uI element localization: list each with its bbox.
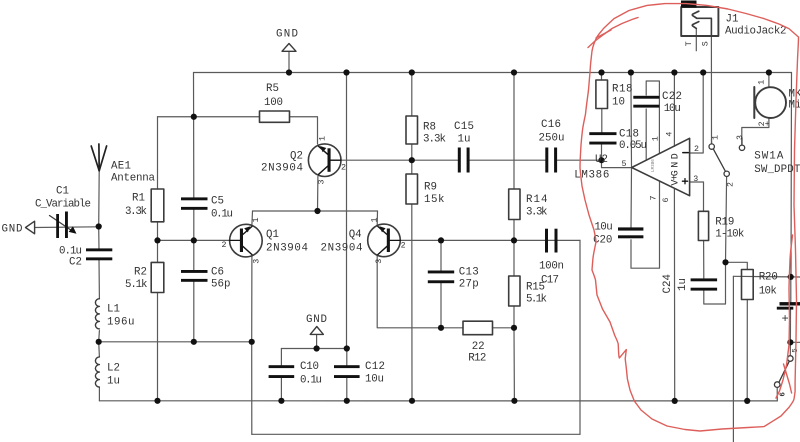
wire C22 bottom to pin8 edge xyxy=(645,109,647,160)
svg-text:C6: C6 xyxy=(211,267,224,279)
wire switch common down to junction xyxy=(726,177,727,263)
svg-text:2N3904: 2N3904 xyxy=(266,243,308,255)
node bottom bus at R20 xyxy=(744,398,750,404)
svg-text:LM386: LM386 xyxy=(574,169,609,181)
red hook stroke xyxy=(588,18,638,48)
svg-text:+: + xyxy=(765,120,770,129)
resistor R14 xyxy=(509,189,520,220)
svg-text:L2: L2 xyxy=(107,363,120,375)
battery BT plates xyxy=(780,302,800,305)
capacitor C13 plates xyxy=(428,271,454,274)
svg-text:1u: 1u xyxy=(107,376,120,388)
svg-text:C15: C15 xyxy=(454,121,474,133)
svg-text:R19: R19 xyxy=(715,216,734,228)
capacitor C22 plates xyxy=(633,96,659,99)
wire Q1 collector stub xyxy=(251,211,254,225)
svg-text:1u: 1u xyxy=(677,278,689,291)
wire Q1-Q4 collector row y=211 xyxy=(253,210,378,212)
svg-text:10u: 10u xyxy=(365,374,384,386)
wire R20 bottom to bottom bus xyxy=(746,300,748,401)
wire apex column down to C20 xyxy=(630,168,633,228)
svg-text:10u: 10u xyxy=(594,222,612,234)
op-amp U1 minus sign xyxy=(683,152,689,154)
wire SW1B throw stub xyxy=(789,342,791,355)
svg-text:0.1u: 0.1u xyxy=(211,209,233,221)
svg-text:2: 2 xyxy=(401,241,406,250)
svg-text:3: 3 xyxy=(253,259,262,264)
wire U2 input jog to apex xyxy=(602,160,632,167)
svg-text:10u: 10u xyxy=(664,103,681,115)
svg-text:1: 1 xyxy=(711,135,720,140)
wire battery top stub xyxy=(790,277,792,302)
inductor L2 coil xyxy=(95,357,99,387)
capacitor C15 plates (vertical) xyxy=(458,148,461,173)
wire right edge column mic corner to battery xyxy=(790,73,793,277)
svg-text:7: 7 xyxy=(649,196,658,201)
node L1/L2 junction xyxy=(96,339,102,345)
wire C18 bottom to signal junction xyxy=(601,145,603,161)
svg-text:4: 4 xyxy=(666,132,675,137)
wire C24 bottom jog up to switch junction xyxy=(704,262,726,304)
node bottom bus at C10 xyxy=(278,398,284,404)
svg-text:1u: 1u xyxy=(458,134,471,146)
svg-text:3: 3 xyxy=(318,180,327,185)
svg-text:15k: 15k xyxy=(424,194,445,206)
wire R9 bottom to bottom bus xyxy=(411,204,413,401)
node top bus at pin2 column xyxy=(700,69,706,75)
node Q4 base row at C13 xyxy=(438,237,444,243)
svg-text:5.1k: 5.1k xyxy=(125,279,148,291)
svg-text:R18: R18 xyxy=(612,83,633,95)
svg-text:SW_DPDT: SW_DPDT xyxy=(754,164,800,176)
svg-text:C_Variable: C_Variable xyxy=(35,199,91,211)
node L-row at Q1 emitter xyxy=(249,339,255,345)
power symbol GND left triangle xyxy=(26,221,35,234)
wire signal row y=160.2 Q2 base to C15 xyxy=(330,159,458,161)
wire R15 bottom stub xyxy=(513,306,515,328)
svg-text:6: 6 xyxy=(780,392,788,397)
switch SW1A contact 3 stub xyxy=(741,138,743,145)
svg-text:2N3904: 2N3904 xyxy=(321,243,363,255)
svg-text:C13: C13 xyxy=(459,267,479,279)
capacitor C17 plates (vertical) xyxy=(545,229,548,253)
svg-text:R5: R5 xyxy=(266,83,279,95)
svg-text:1-10k: 1-10k xyxy=(715,228,744,240)
svg-text:5: 5 xyxy=(622,160,627,169)
capacitor C1 arrowhead xyxy=(69,226,77,234)
svg-text:C16: C16 xyxy=(541,119,561,131)
wire C6 down to L-row xyxy=(193,281,195,342)
svg-text:C10: C10 xyxy=(300,361,319,373)
svg-text:L1: L1 xyxy=(107,304,120,316)
wire C10 top corner xyxy=(280,349,282,366)
resistor R1 xyxy=(151,189,164,222)
node bottom bus at C12 xyxy=(344,398,350,404)
svg-text:3.3k: 3.3k xyxy=(125,206,147,218)
svg-text:U2: U2 xyxy=(595,154,608,166)
capacitor C6 plates xyxy=(181,270,208,273)
wire R14 bottom stub xyxy=(513,220,515,241)
op-amp U1 plus sign xyxy=(682,179,687,184)
power symbol GND top triangle xyxy=(282,44,296,52)
transistor Q4 body xyxy=(368,224,401,257)
transistor Q2 bar and legs xyxy=(319,146,341,174)
switch SW1A common contact 2 xyxy=(724,171,729,176)
svg-text:1: 1 xyxy=(651,136,660,141)
wire L1 bottom to junction xyxy=(98,331,101,342)
jack J1 sleeve right-angle to S pin xyxy=(696,18,711,36)
wire SW1A throw1 stub xyxy=(711,139,713,144)
svg-text:V+: V+ xyxy=(671,175,682,186)
svg-text:Q2: Q2 xyxy=(290,151,303,163)
wire C12 top stub xyxy=(346,349,348,366)
wire Q1 base row y=240.4 xyxy=(158,239,230,241)
wire jack sleeve line down to SW1A xyxy=(710,36,712,144)
svg-text:56p: 56p xyxy=(211,279,231,291)
svg-text:R20: R20 xyxy=(759,271,778,283)
wire L1 top from C2 xyxy=(98,260,100,299)
wire R9 stub top xyxy=(411,160,413,174)
wire C13 bottom stub xyxy=(440,283,442,328)
resistor R19 xyxy=(698,211,708,240)
node top bus at mic xyxy=(766,69,772,75)
svg-text:3: 3 xyxy=(693,175,698,184)
wire antenna stem xyxy=(98,171,101,227)
svg-text:2: 2 xyxy=(341,163,346,172)
svg-text:3.3k: 3.3k xyxy=(526,207,548,219)
svg-text:2: 2 xyxy=(694,145,699,154)
node top bus at R8 xyxy=(409,69,415,75)
wire GND left stem and C1 row y=227.5 xyxy=(35,226,99,229)
op-amp U1 LM386 triangle xyxy=(632,138,690,195)
wire R5 row y=116.75 xyxy=(158,116,260,118)
transistor internals xyxy=(230,146,689,255)
switch SW1B common contact xyxy=(774,382,780,388)
svg-text:Q1: Q1 xyxy=(266,229,279,241)
svg-text:5.1k: 5.1k xyxy=(526,294,547,306)
node signal row at U2 input xyxy=(598,157,604,163)
capacitor C18 plates xyxy=(589,132,616,135)
jack J1 shield black square xyxy=(681,1,697,8)
svg-text:1: 1 xyxy=(757,80,766,85)
switch SW1A contact 1 xyxy=(709,144,714,149)
svg-text:C12: C12 xyxy=(365,361,385,373)
svg-text:0.1u: 0.1u xyxy=(300,375,322,387)
node R1/R2 xyxy=(154,237,160,243)
node top bus at x=346 xyxy=(343,69,349,75)
wire mic pin1 stub xyxy=(768,73,770,88)
svg-text:C5: C5 xyxy=(211,196,224,208)
node R12 row right xyxy=(511,325,517,331)
wire Q4 base row y=240.4 xyxy=(400,239,580,241)
wire LM386 pin2 to bus column xyxy=(690,73,704,154)
svg-text:3.3k: 3.3k xyxy=(423,134,446,146)
svg-text:S: S xyxy=(701,41,710,46)
switch SW1B lever xyxy=(779,361,789,382)
wire SW1B stub right to edge xyxy=(790,341,800,343)
svg-text:R15: R15 xyxy=(526,282,545,294)
svg-text:C22: C22 xyxy=(662,91,682,103)
svg-text:Mi: Mi xyxy=(789,99,800,111)
wire LM386 pin4 from bus xyxy=(673,73,675,147)
resistor R9 xyxy=(406,174,418,204)
node battery bottom SW1B xyxy=(787,339,793,345)
wire Q4 collector stub xyxy=(376,211,378,225)
node mid GND row stem xyxy=(314,345,320,351)
wire R1 top to R5 row xyxy=(157,117,159,189)
wire LM386 pin3 to R19 xyxy=(690,182,704,211)
wire R12 row left segment xyxy=(441,327,463,329)
resistor R5 xyxy=(260,111,290,122)
node R20 row right xyxy=(788,274,794,280)
svg-text:Q4: Q4 xyxy=(349,229,362,241)
svg-text:T: T xyxy=(685,41,694,46)
svg-text:C24: C24 xyxy=(662,274,674,294)
node R12 row left xyxy=(438,325,444,331)
svg-text:R9: R9 xyxy=(424,182,437,194)
svg-text:196u: 196u xyxy=(107,317,135,329)
antenna AE1 symbol xyxy=(91,144,106,171)
wire R14 column from bus xyxy=(513,73,515,190)
wire SW1B common stub to bus end xyxy=(776,388,778,401)
node top bus at LM386 pin4 xyxy=(671,69,677,75)
svg-text:Antenna: Antenna xyxy=(111,173,156,185)
red inner branch stroke xyxy=(784,364,792,393)
wire Q1 emitter down to L-row xyxy=(251,256,253,342)
capacitor C16 plates (vertical) xyxy=(545,148,548,173)
wire apex column from bus x=631 xyxy=(630,73,633,168)
svg-text:100n: 100n xyxy=(539,261,564,273)
jack J1 tip contact chevron xyxy=(692,11,699,18)
wire L2 top stub xyxy=(98,342,101,357)
node collector row at Q2 emitter xyxy=(314,208,320,214)
wire LM386 pin6 V+ down to bottom bus xyxy=(673,189,675,401)
wire outer feedback loop left vertical xyxy=(251,342,253,435)
svg-text:R12: R12 xyxy=(468,353,486,365)
svg-text:2N3904: 2N3904 xyxy=(261,163,303,175)
svg-text:AudioJack2: AudioJack2 xyxy=(725,26,787,38)
wire C20 bottom jog to pin7 xyxy=(631,181,660,268)
capacitor C10 plates xyxy=(269,365,295,368)
microphone MK1 diaphragm bar xyxy=(753,87,755,118)
wire R20 left net vertical off bottom edge xyxy=(732,276,734,442)
node R5 row at x=193.8 xyxy=(191,114,197,120)
svg-text:3: 3 xyxy=(736,135,745,140)
node top bus at R18 xyxy=(598,69,604,75)
node bottom bus at R2 xyxy=(154,398,160,404)
wire L2 bottom corner xyxy=(98,387,100,401)
wire Q4 emitter down and right to R12 row xyxy=(377,256,441,328)
resistor R18 xyxy=(596,80,608,109)
svg-text:LM386: LM386 xyxy=(651,159,656,172)
node L-row at x=193.8 xyxy=(191,339,197,345)
resistor R20 xyxy=(742,270,754,300)
wire bottom bus y=400.8 xyxy=(99,400,777,402)
connector J1 audio jack body xyxy=(681,7,718,36)
switch SW1B throw contact xyxy=(788,356,794,362)
node bottom bus at R15 xyxy=(511,398,517,404)
node top bus at R14 column xyxy=(511,69,517,75)
svg-text:100: 100 xyxy=(264,97,283,109)
svg-text:0.05u: 0.05u xyxy=(619,140,647,152)
red hook secondary dash xyxy=(596,30,611,38)
transistor Q1 body xyxy=(230,224,263,257)
wire mid GND stem xyxy=(316,335,318,349)
svg-text:R2: R2 xyxy=(134,267,147,279)
wire junction to R20 top xyxy=(726,262,748,269)
svg-text:AE1: AE1 xyxy=(111,161,131,173)
wire R19 bottom to C24 xyxy=(703,241,705,279)
capacitor C5 plates xyxy=(181,197,208,200)
wire top GND bus y=72.5 xyxy=(194,72,792,74)
capacitor C1 plates (vertical) xyxy=(56,214,59,238)
wire signal row C16 to U2 junction xyxy=(558,159,602,161)
svg-text:SW1A: SW1A xyxy=(754,150,784,162)
svg-text:27p: 27p xyxy=(459,278,479,290)
wire R5 to Q2 collector corner xyxy=(290,117,318,144)
capacitor C1 variable arrow line xyxy=(50,216,75,233)
wire mic pin2 to SW1A throw2 xyxy=(742,118,769,145)
red main loop xyxy=(580,4,799,431)
node mid GND row right xyxy=(344,345,350,351)
svg-text:C18: C18 xyxy=(619,129,639,141)
node switch junction xyxy=(722,259,728,265)
svg-text:6: 6 xyxy=(662,198,671,203)
svg-text:2: 2 xyxy=(222,241,227,250)
wire R1 top corner xyxy=(157,222,159,241)
wire Q2 emitter down to collector row xyxy=(317,177,319,212)
wire C22 top hook to pin1 xyxy=(646,81,659,153)
svg-text:22: 22 xyxy=(472,341,485,353)
wire R15 top stub xyxy=(513,240,515,276)
resistor R2 xyxy=(151,262,164,292)
inductor L1 coil xyxy=(95,299,99,329)
transistor Q2 body xyxy=(308,144,341,177)
wire L-row y=341.8 xyxy=(99,341,252,343)
svg-text:GND: GND xyxy=(2,224,23,236)
svg-text:C2: C2 xyxy=(69,257,82,269)
svg-text:GND: GND xyxy=(671,153,682,176)
microphone MK1 body xyxy=(755,87,786,118)
wire R8 bottom stub xyxy=(411,144,413,160)
wire gnd column x=346.5 from bus to mid gnd wire xyxy=(346,73,348,349)
wire C5 to C6 segment xyxy=(193,209,195,271)
svg-text:R1: R1 xyxy=(132,193,145,205)
svg-text:3: 3 xyxy=(375,259,384,264)
node Q4 base row at R14/R15 xyxy=(511,237,517,243)
svg-text:C1: C1 xyxy=(56,186,69,198)
svg-text:J1: J1 xyxy=(726,14,739,26)
wire R2 bottom to bottom bus xyxy=(157,293,159,401)
wire R18 column bus to box xyxy=(601,73,603,81)
wire signal row C15 to C16 xyxy=(470,159,545,161)
capacitor C24 plates xyxy=(691,278,718,281)
wire C13 top stub xyxy=(440,240,442,270)
svg-text:1: 1 xyxy=(319,136,328,141)
wire C10 bottom stub xyxy=(280,378,282,401)
svg-text:10: 10 xyxy=(612,97,625,109)
svg-text:1: 1 xyxy=(370,218,379,223)
capacitor C2 plates xyxy=(86,248,112,251)
node antenna/C1 xyxy=(96,223,102,229)
svg-text:R14: R14 xyxy=(526,194,548,206)
svg-text:250u: 250u xyxy=(539,133,565,145)
svg-text:R8: R8 xyxy=(423,122,436,134)
svg-text:+: + xyxy=(782,312,789,326)
wire outer feedback loop bottom xyxy=(252,433,580,435)
resistor R8 xyxy=(406,116,418,144)
red annotation scribble xyxy=(580,4,799,431)
node bottom bus at R9 xyxy=(409,398,415,404)
node top bus at apex column xyxy=(628,69,634,75)
wire mid GND row y=348.5 xyxy=(281,348,346,350)
capacitor C20 plates xyxy=(618,227,643,230)
svg-text:2: 2 xyxy=(726,182,735,187)
resistor R12 xyxy=(463,321,493,335)
wire R12 row right segment xyxy=(493,327,515,329)
wire R20 crossing row y=276.3 xyxy=(733,275,800,278)
node signal row at R8/R9 xyxy=(409,157,415,163)
svg-text:1: 1 xyxy=(252,218,261,223)
capacitor C12 plates xyxy=(334,365,360,368)
wire outer feedback loop right vertical up to Q4 base row xyxy=(579,240,581,434)
svg-text:GND: GND xyxy=(306,314,327,326)
wire jack tip pin stub xyxy=(695,28,697,50)
svg-text:10k: 10k xyxy=(759,285,777,297)
wire R8 column bus to box xyxy=(411,73,413,117)
jack J1 sleeve contact chevron xyxy=(692,22,699,29)
svg-text:GND: GND xyxy=(276,29,298,41)
switch SW1A lever xyxy=(713,149,725,171)
wire C2 top stub xyxy=(98,227,100,250)
node bottom bus at V+ xyxy=(672,398,678,404)
node top bus at GND stem xyxy=(286,69,292,75)
wire GND1 stem xyxy=(288,52,290,73)
wire R15 bottom to bottom bus xyxy=(513,328,515,401)
wire R18 bottom to C18 xyxy=(601,109,603,133)
red inner right stroke xyxy=(776,235,793,398)
wire C12 bottom stub xyxy=(346,378,348,401)
resistor R15 xyxy=(509,276,520,306)
node C5/C6 base row xyxy=(191,237,197,243)
wire left column from top bus down through C5/C6 x=193.8 xyxy=(193,73,195,199)
transistor Q4 bar and legs xyxy=(378,226,400,254)
transistor Q1 bar and legs xyxy=(230,226,252,254)
switch SW1A contact 3 xyxy=(739,145,744,150)
power symbol GND mid triangle xyxy=(310,327,323,335)
wire R2 stubs xyxy=(157,240,159,262)
wire battery bottom stub xyxy=(789,310,791,342)
